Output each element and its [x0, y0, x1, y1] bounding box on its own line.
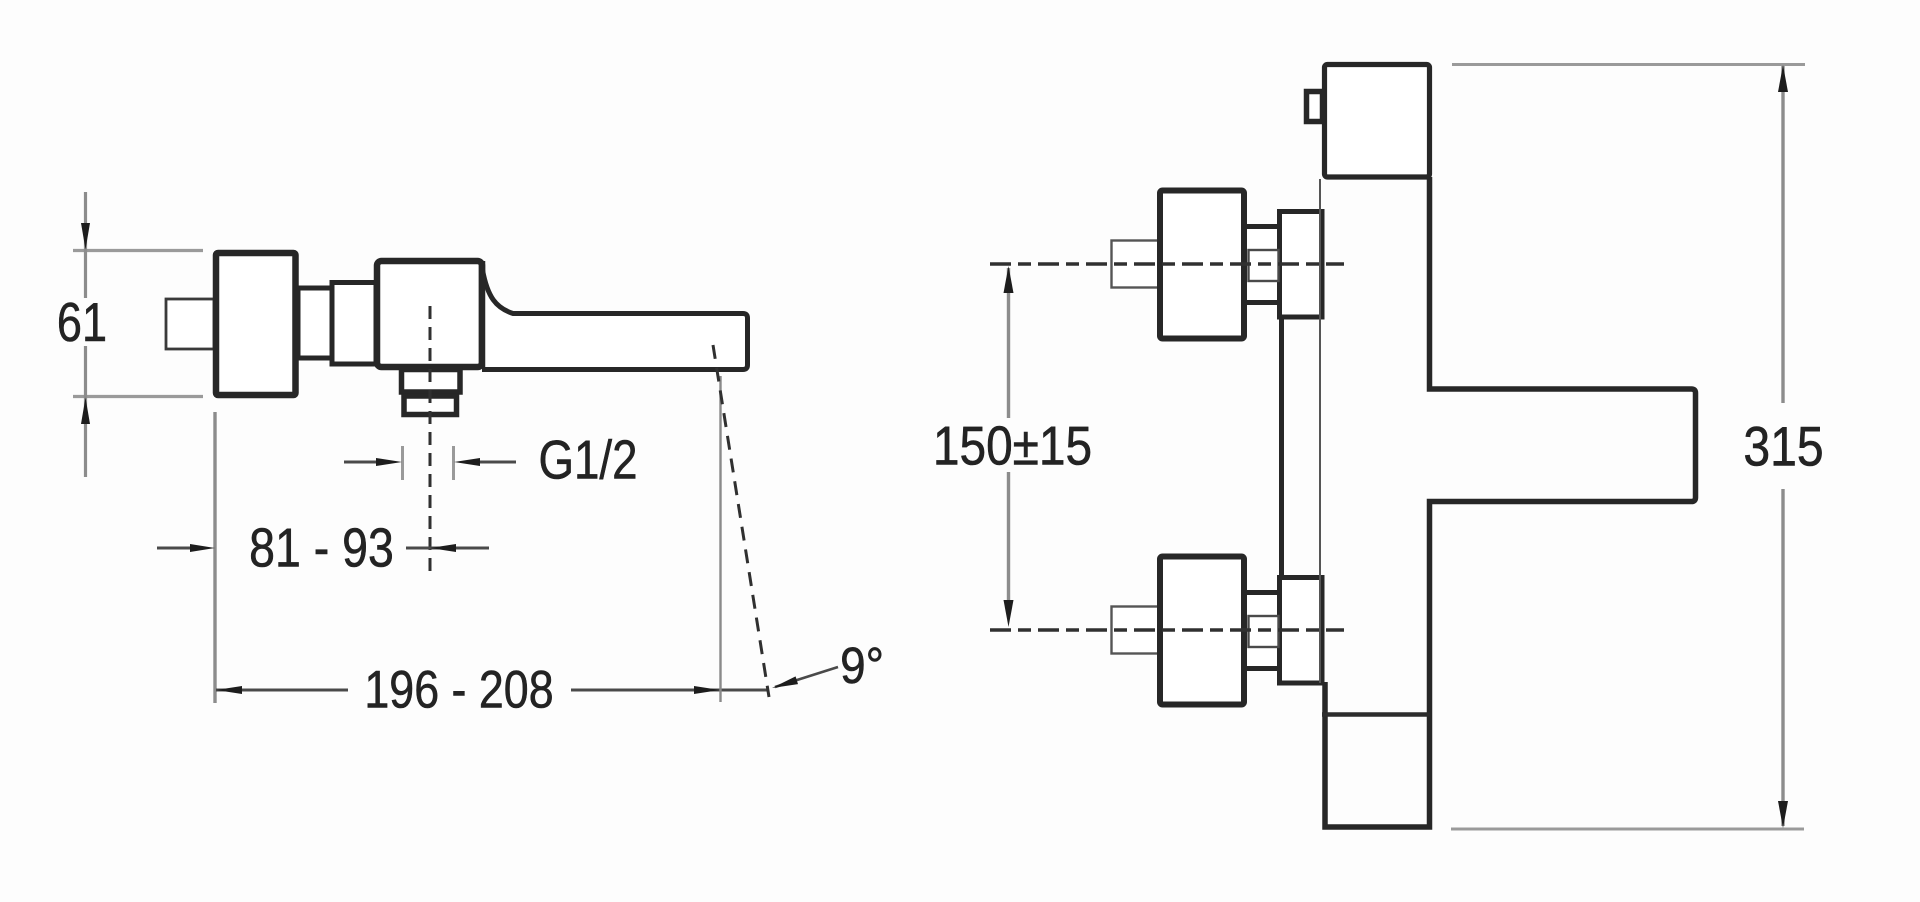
dimension line 61 [84, 192, 87, 477]
9 deg leader arrow [772, 676, 798, 688]
svg-text:315: 315 [1743, 416, 1823, 478]
bottom centerline [990, 628, 1344, 632]
aerator lower block [404, 396, 457, 415]
315 dimension line [1781, 66, 1784, 826]
wall extension line [213, 412, 216, 703]
dimension line 196-208 left [216, 689, 348, 692]
joint line above outlet [1322, 712, 1430, 717]
dimension line 196-208 right [571, 689, 767, 692]
G1/2 arrow left [376, 458, 402, 466]
G1/2 tick left [401, 446, 404, 480]
315 arrow top [1778, 65, 1788, 92]
arrow 196-208 left [216, 686, 242, 694]
top handle: supply shaft [1112, 241, 1163, 288]
body outline right side with spout step [1325, 177, 1696, 827]
aerator upper block [402, 370, 461, 393]
bottom handle: supply shaft [1112, 607, 1163, 654]
150 dimension line [1007, 268, 1010, 600]
supply pipe stub (left) [166, 299, 214, 349]
top centerline [990, 262, 1344, 266]
150 arrow bottom [1004, 600, 1014, 627]
bottom handle: flange [1280, 578, 1323, 684]
dimension line 81-93 right [406, 547, 489, 550]
arrow 81-93 right [430, 544, 456, 552]
G1/2 tick right [452, 446, 455, 480]
svg-text:61: 61 [57, 291, 107, 353]
arrow 196-208 right [694, 686, 720, 694]
315 extension line top [1452, 63, 1805, 66]
150 arrow top [1004, 266, 1014, 293]
spout end extension line [719, 376, 721, 702]
bottom handle: screw [1249, 616, 1279, 647]
spout [482, 270, 748, 370]
svg-text:196 - 208: 196 - 208 [364, 661, 553, 719]
bottom handle: knob [1160, 557, 1244, 705]
315 arrow bottom [1778, 801, 1788, 828]
body right edge redraw [479, 261, 486, 367]
extension line top (61) [73, 249, 203, 252]
top handle: knob [1160, 191, 1244, 339]
body left thin edge [1319, 179, 1321, 683]
wall plate [216, 253, 296, 395]
arrow 61 bottom [81, 398, 90, 425]
extension line bottom (61) [73, 395, 203, 398]
arrow 81-93 left [190, 544, 215, 552]
9 deg leader line [775, 667, 838, 687]
cap notch tab [1307, 92, 1323, 122]
svg-text:81 - 93: 81 - 93 [249, 517, 394, 579]
svg-text:G1/2: G1/2 [539, 428, 638, 490]
spout tilt dashed line (9 deg) [713, 345, 769, 697]
G1/2 arrow right [454, 458, 480, 466]
G1/2 dimension line left [344, 461, 377, 464]
dimension line 81-93 left [157, 547, 192, 550]
connector piece B [332, 283, 376, 365]
centerline (aerator axis) [429, 306, 432, 573]
top handle: flange [1280, 212, 1323, 318]
315 extension line bottom [1451, 828, 1804, 831]
svg-text:150±15: 150±15 [933, 414, 1092, 476]
connector piece A [298, 288, 332, 358]
top handle: neck [1244, 227, 1282, 303]
bottom handle: neck [1244, 593, 1282, 669]
G1/2 dimension line right [480, 461, 516, 464]
mixer body [377, 261, 482, 367]
top handle: screw [1249, 250, 1279, 281]
svg-text:9°: 9° [840, 638, 884, 695]
left plate edge between handle flanges [1279, 316, 1284, 578]
body cap (top) [1325, 65, 1430, 178]
arrow 61 top [81, 223, 90, 250]
